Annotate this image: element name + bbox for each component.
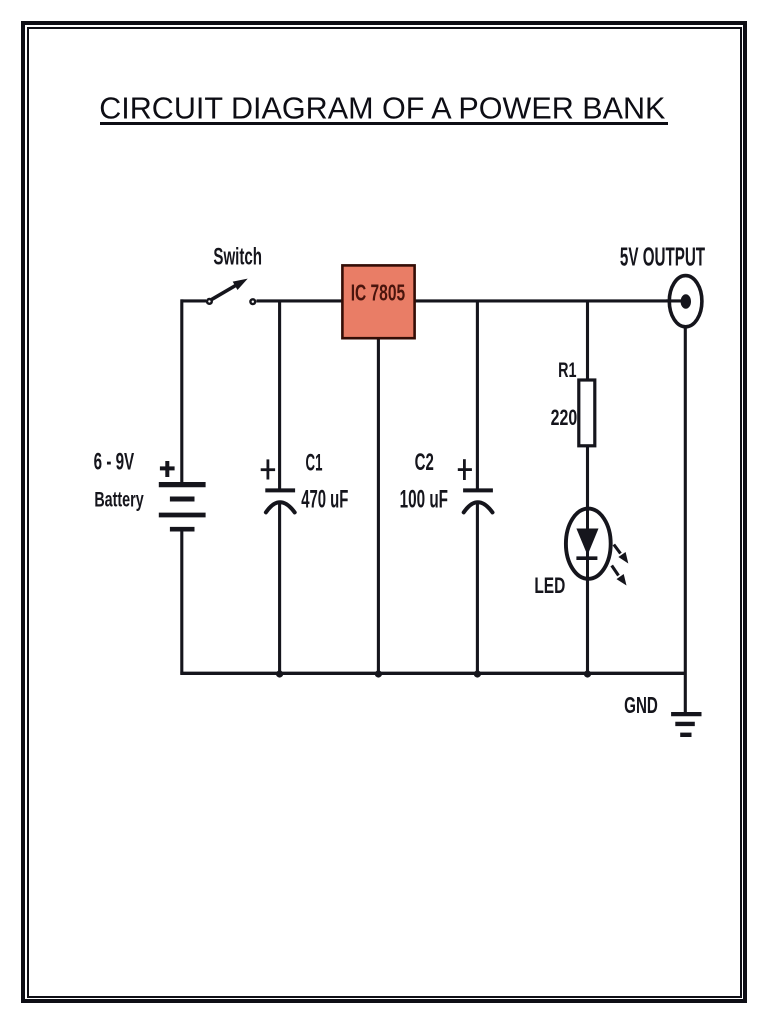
svg-text:GND: GND (624, 693, 658, 719)
svg-text:C1: C1 (306, 450, 323, 477)
svg-text:6 - 9V: 6 - 9V (94, 449, 135, 475)
svg-text:Switch: Switch (213, 244, 262, 270)
svg-text:IC 7805: IC 7805 (351, 281, 405, 307)
svg-text:220: 220 (551, 407, 578, 431)
svg-text:Battery: Battery (94, 488, 143, 511)
svg-text:CIRCUIT DIAGRAM OF A POWER BAN: CIRCUIT DIAGRAM OF A POWER BANK (99, 91, 666, 125)
svg-text:R1: R1 (558, 357, 576, 382)
svg-text:C2: C2 (415, 450, 434, 476)
svg-text:LED: LED (534, 574, 565, 598)
svg-text:470 uF: 470 uF (301, 487, 348, 514)
svg-text:5V OUTPUT: 5V OUTPUT (620, 242, 705, 271)
svg-text:100 uF: 100 uF (400, 486, 448, 514)
